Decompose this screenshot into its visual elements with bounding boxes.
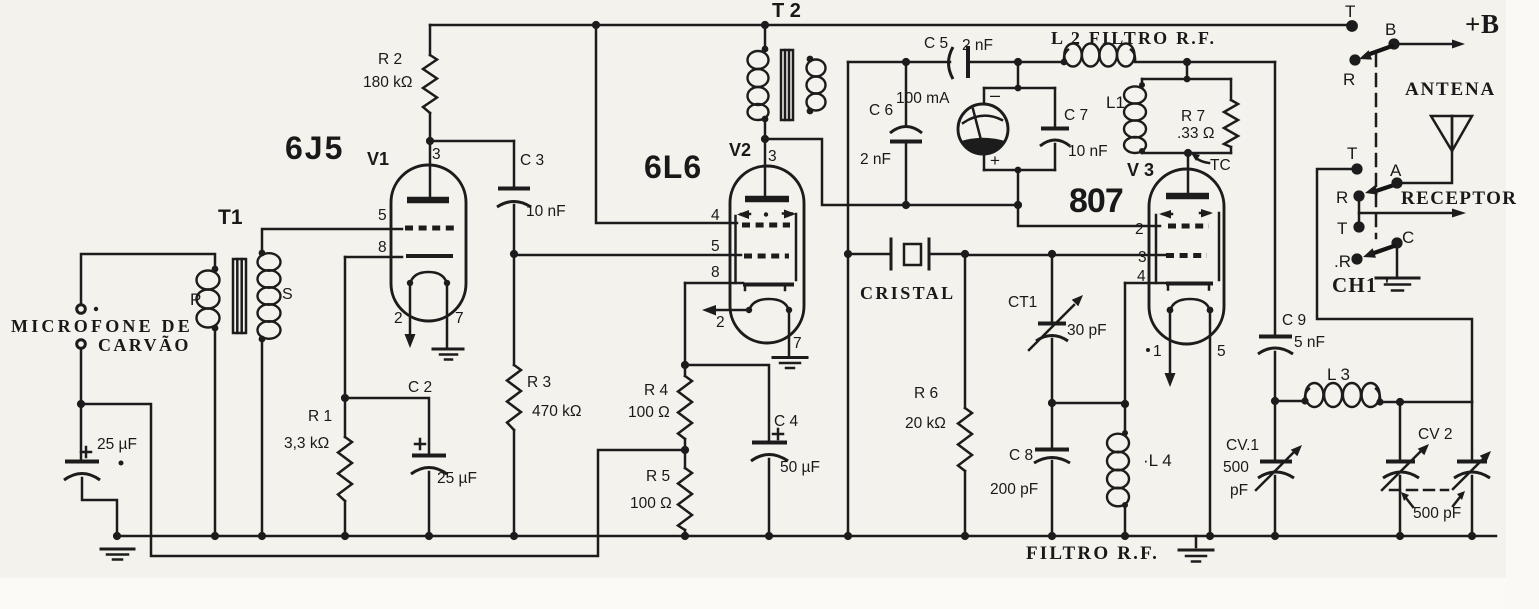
svg-text:C 4: C 4 [774,413,799,430]
wire mic upper to T1 primary [81,254,215,304]
wire to V1 plate pin 3 [429,141,432,197]
node top rail / T2 primary [761,21,769,29]
node tank / V3 plate [1184,149,1192,157]
resistor R5 100 ohm [684,450,687,468]
ground bottom rail (FILTRO R.F.) [1195,536,1198,547]
svg-text:2 nF: 2 nF [860,151,891,168]
svg-text:CT1: CT1 [1008,294,1037,311]
svg-text:V2: V2 [729,140,751,160]
svg-text:ANTENA: ANTENA [1405,79,1496,100]
switch CH1 section 3: arm C to R [1374,246,1394,253]
ganged link CV2 (dashed) [1390,489,1448,492]
V2 plate [745,196,789,203]
tube V1 6J5 envelope [391,165,466,321]
svg-text:R 6: R 6 [914,385,938,402]
V1 plate [407,197,449,204]
svg-text:1: 1 [1153,343,1162,360]
wire meter to V3 grid 1 [1018,170,1160,226]
svg-text:.R: .R [1334,252,1351,271]
svg-text:180 kΩ: 180 kΩ [363,74,413,91]
svg-text:6J5: 6J5 [285,130,344,166]
svg-text:7: 7 [793,335,802,352]
V1 pin 2 lead with arrow [409,283,412,335]
node C8 / rail [1048,532,1056,540]
variable capacitor CV2 section B [1471,402,1474,459]
inductor L3 [1275,400,1305,403]
wire T2 node down to V2 plate pin 3 [764,139,767,197]
svg-text:R 2: R 2 [378,51,402,68]
tube V3 807 envelope [1149,169,1224,344]
svg-text:2: 2 [716,314,725,331]
svg-text:500 pF: 500 pF [1413,505,1461,522]
resistor R3 470k [513,254,516,365]
svg-text:CV.1: CV.1 [1226,437,1259,454]
wire R to receptor arrow [1358,196,1361,227]
node R3 / rail [510,532,518,540]
wire V2 cathode to R4 [684,283,687,365]
svg-text:R: R [1336,188,1348,207]
switch CH1 section 1: terminal T [1346,20,1358,32]
svg-text:8: 8 [711,264,720,281]
svg-text:20 kΩ: 20 kΩ [905,415,946,432]
svg-text:CV 2: CV 2 [1418,426,1452,443]
wire CT1 node to L4 [1052,402,1125,405]
wire RF top line [848,61,1275,64]
switch CH1 section 2: terminal R [1353,190,1364,201]
wire tank to V3 plate [1187,153,1190,192]
svg-text:B: B [1385,20,1396,39]
switch CH1 section 3: terminal C [1391,237,1402,248]
resistor R2 [429,25,432,55]
wire T1 secondary bottom to rail [261,339,264,536]
crystal (CRISTAL) [848,253,965,256]
node CT1 top [1048,250,1056,258]
node T1 secondary / rail [258,532,266,540]
svg-text:2: 2 [394,310,403,327]
node meter branch top [1014,58,1022,66]
switch CH1 section 3: terminal R [1351,253,1362,264]
V3 grid 1 pin 2 with beam arrows [1168,224,1209,229]
inductor L1 [1141,79,1144,86]
node C3 / R3 / V2 grid [510,250,518,258]
switch CH1 section 2: terminal T [1351,163,1362,174]
svg-text:2: 2 [1135,221,1144,238]
V1 filament [410,272,447,284]
svg-text:': ' [1379,245,1382,261]
svg-text:MICROFONE DE: MICROFONE DE [11,316,193,336]
svg-text:pF: pF [1230,482,1248,499]
svg-text:C 8: C 8 [1009,447,1033,464]
svg-text:5: 5 [1217,343,1226,360]
svg-text:500: 500 [1223,459,1249,476]
svg-text:R: R [1343,70,1355,89]
tank circuit top bar [1142,78,1231,81]
svg-text:L1: L1 [1106,93,1125,112]
svg-text:T1: T1 [218,206,243,229]
node R6 / rail [961,532,969,540]
capacitor 25uF (mic filter) [80,404,83,459]
node meter line / C6 line [1014,201,1022,209]
node C2 / rail [425,532,433,540]
wire tank feed [1186,62,1189,79]
V2 screen grid pin 4 with beam arrows [742,223,790,228]
tank circuit bottom bar [1142,152,1231,155]
svg-text:3: 3 [432,146,441,163]
resistor R6 20k [964,254,967,408]
wire bias return (second rail) [81,404,685,556]
pointer arrow right to gang link [1453,497,1460,506]
node C4 / rail [765,532,773,540]
node R4 / R5 / bias line [681,446,689,454]
node crystal right / R6 [961,250,969,258]
wire node to C4 [685,365,769,440]
meter 100mA branch [1017,62,1020,88]
wire T2 node to C6 bottom and meter line [765,139,1018,205]
node cathode / R4 / C4 [681,361,689,369]
pointer arrow left to gang link [1406,498,1413,507]
wire +B output with arrow [1399,43,1452,46]
svg-text:5: 5 [378,207,387,224]
V2 beam plate box [734,216,737,283]
svg-text:30 pF: 30 pF [1067,322,1107,339]
wire L3 to CV2 tank [1380,401,1472,404]
V1 grid (pin 5) [405,226,454,231]
svg-text:T: T [1347,144,1357,163]
microphone terminal upper [77,305,86,314]
T2 core [781,50,793,120]
node CV1 / rail [1271,532,1279,540]
ground main (below mic filter) [101,548,134,551]
svg-text:–: – [990,85,1000,105]
svg-text:V1: V1 [367,149,389,169]
svg-text:807: 807 [1069,182,1123,220]
node top rail / V2 screen feed [592,21,600,29]
wire R2 node to C3 [430,140,514,143]
wire T2nd to CV2 tank [1317,169,1472,402]
svg-text:50 µF: 50 µF [780,459,820,476]
node CV2 left branch [1396,398,1404,406]
capacitor C4 50uF [752,441,787,445]
svg-text:C 5: C 5 [924,35,948,52]
V1 pin 7 lead [446,283,449,347]
svg-text:C 9: C 9 [1282,312,1306,329]
node L4 / rail [1121,532,1129,540]
wire RF line down to C9 [1274,62,1277,334]
meter 100 mA [958,104,1008,154]
switch CH1 section 1: terminal B [1388,38,1399,49]
svg-text:R 5: R 5 [646,468,670,485]
V3 cathode pin 4 [1125,282,1166,285]
wire top supply rail [430,24,1350,27]
switch CH1 section 1: arm B to R [1367,46,1392,55]
node crystal left [844,250,852,258]
node C9 / L3 / CV1 [1271,397,1279,405]
node CV2B / rail [1468,532,1476,540]
svg-text:4: 4 [1137,268,1146,285]
svg-text:T 2: T 2 [772,0,801,22]
svg-text:25 µF: 25 µF [437,470,477,487]
variable capacitor CV2 section A [1399,402,1402,459]
V1 cathode (pin 8) [345,256,402,259]
T1 core [233,259,246,333]
node mic / 25uF junction [77,400,85,408]
svg-text:R 1: R 1 [308,408,332,425]
node L4 top [1121,400,1129,408]
V2 pin 2 lead with arrow [716,309,749,312]
svg-text:CH1 ': CH1 ' [1332,273,1391,297]
svg-text:C 6: C 6 [869,102,893,119]
svg-text:R 7: R 7 [1181,108,1205,125]
wire T1 secondary top to V1 grid [262,229,402,253]
capacitor C7 10nF [1054,88,1057,126]
svg-text:100 Ω: 100 Ω [630,495,672,512]
svg-text:TC: TC [1210,157,1231,174]
microphone terminal lower [77,340,86,349]
node CT1 / C8 / L4 line [1048,399,1056,407]
wire T1 primary bottom to rail [214,328,217,536]
V3 pin 5 lead [1209,310,1212,536]
svg-text:S: S [282,286,293,303]
svg-text:RECEPTOR: RECEPTOR [1401,188,1517,209]
node C6 top [902,58,910,66]
capacitor C8 200pF [1051,403,1054,447]
TC tap label with arrow [1196,158,1209,163]
wire A to antenna [1397,116,1452,183]
svg-text:R 3: R 3 [527,374,551,391]
node R1 / C2 [341,394,349,402]
node T1 primary / rail [211,532,219,540]
resistor R7 33 ohm [1230,79,1233,100]
node crystal line / rail [844,532,852,540]
capacitor C2 25uF [345,398,429,453]
tube V2 6L6 envelope [730,166,804,343]
switch CH1 section 2: arm A to R [1376,185,1394,191]
inductor L4 [1124,404,1127,434]
wire mic lower down [80,350,83,405]
T2 primary coil [764,25,767,50]
ground V1 pin 7 [433,348,463,351]
V3 grid 2 pin 3 [1166,253,1207,258]
wire V1 cathode branch down [344,257,347,398]
node CV2A / rail [1396,532,1404,540]
svg-text:5: 5 [711,238,720,255]
wire V3 cathode to L4 [1124,283,1127,404]
ground CH1 [1376,277,1419,280]
resistor R4 100 ohm [684,365,687,376]
svg-text:8: 8 [378,239,387,256]
svg-text:P: P [190,290,201,309]
svg-text:R 4: R 4 [644,382,669,399]
node L2 out / tank feed [1183,58,1191,66]
svg-text:T: T [1345,2,1355,21]
svg-text:100 Ω: 100 Ω [628,404,670,421]
svg-text:T: T [1337,219,1347,238]
node ground junction [113,532,121,540]
svg-text:FILTRO R.F.: FILTRO R.F. [1026,543,1159,564]
svg-text:C 7: C 7 [1064,107,1088,124]
node R1 / rail [341,532,349,540]
T2 secondary coil [807,56,814,63]
capacitor C9 5nF [1259,335,1292,339]
V3 pin 1 lead with arrow [1169,310,1172,374]
node R5 / rail [681,532,689,540]
svg-text:100 mA: 100 mA [896,90,950,107]
V2 control grid pin 5 [744,254,789,259]
wire C to ground [1396,243,1399,276]
svg-text:·L 4: ·L 4 [1143,451,1172,470]
V2 cathode pin 8 [685,282,743,285]
wire crystal to V3 grid 2 [965,254,1166,257]
svg-text:3: 3 [1138,249,1147,266]
T1 secondary coil S [259,250,266,257]
ganged link CH1 (dashed) [1375,54,1378,238]
T1 primary coil P [212,266,219,273]
switch CH1 section 2: terminal A [1391,177,1402,188]
svg-text:25 µF: 25 µF [97,436,137,453]
capacitor C5 2nF [949,47,954,79]
svg-text:C 2: C 2 [408,379,432,396]
node R2 / C3 / V1 plate [426,137,434,145]
wire node to V2 control grid pin 5 [514,254,741,257]
wire top rail to V2 screen grid pin 4 [596,25,737,223]
antenna symbol [1431,116,1472,151]
trimmer capacitor CT1 30pF [1051,254,1054,321]
svg-text:200 pF: 200 pF [990,481,1038,498]
svg-text:CRISTAL: CRISTAL [860,283,956,303]
svg-text:3,3 kΩ: 3,3 kΩ [284,435,329,452]
wire RF line left vertical (crystal feed) [847,62,850,536]
svg-text:A: A [1390,161,1402,180]
V3 beam plate box [1155,215,1158,283]
svg-text:L 3: L 3 [1327,365,1350,384]
V2 filament [749,299,789,311]
switch CH1 section 3: terminal T [1353,221,1364,232]
svg-text:4: 4 [711,207,720,224]
svg-text:+: + [990,151,1000,170]
node T2 primary / V2 plate [761,135,769,143]
svg-text:.33 Ω: .33 Ω [1177,125,1214,142]
svg-text:10 nF: 10 nF [526,203,566,220]
svg-text:6L6: 6L6 [644,149,702,185]
svg-text:7: 7 [455,310,464,327]
wire bottom ground rail [117,535,1496,538]
V3 plate [1166,193,1209,200]
svg-text:10 nF: 10 nF [1068,143,1108,160]
switch CH1 section 1: terminal R [1349,54,1360,65]
capacitor C6 2nF [905,62,908,124]
svg-text:C: C [1402,228,1414,247]
V2 pin 7 lead [788,310,791,355]
variable capacitor CV1 500pF [1274,401,1277,459]
node C6 bottom [902,201,910,209]
svg-text:5 nF: 5 nF [1294,334,1325,351]
svg-text:470 kΩ: 470 kΩ [532,403,582,420]
svg-text:2 nF: 2 nF [962,37,993,54]
svg-text:CARVÃO: CARVÃO [98,334,191,355]
resistor R1 3.3k [344,398,347,437]
V3 filament [1170,299,1210,311]
svg-text:V 3: V 3 [1127,160,1154,180]
svg-text:3: 3 [768,148,777,165]
ground V2 pin 7 [773,356,807,359]
wire meter bottom bar [984,169,1055,172]
node pin5 / rail [1206,532,1214,540]
capacitor C3 10nF [513,141,516,186]
node meter bottom [1015,167,1022,174]
svg-text:+B: +B [1465,9,1500,39]
svg-text:C 3: C 3 [520,152,544,169]
